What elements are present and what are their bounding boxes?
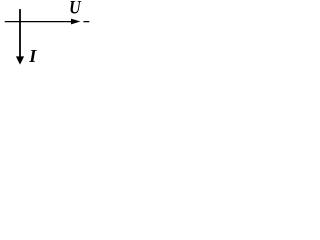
wire: horizontal conductor (left segment, runs under U arrow) — [5, 21, 73, 23]
wire: vertical conductor (runs down to I arrow) — [19, 9, 21, 58]
svg-text:I: I — [28, 46, 37, 66]
wire: short conductor segment right of arrowhead — [83, 21, 89, 23]
arrowhead of voltage arrow U (points right) — [71, 19, 80, 25]
svg-text:U: U — [69, 0, 82, 18]
arrowhead of current arrow I (points down) — [16, 56, 24, 64]
